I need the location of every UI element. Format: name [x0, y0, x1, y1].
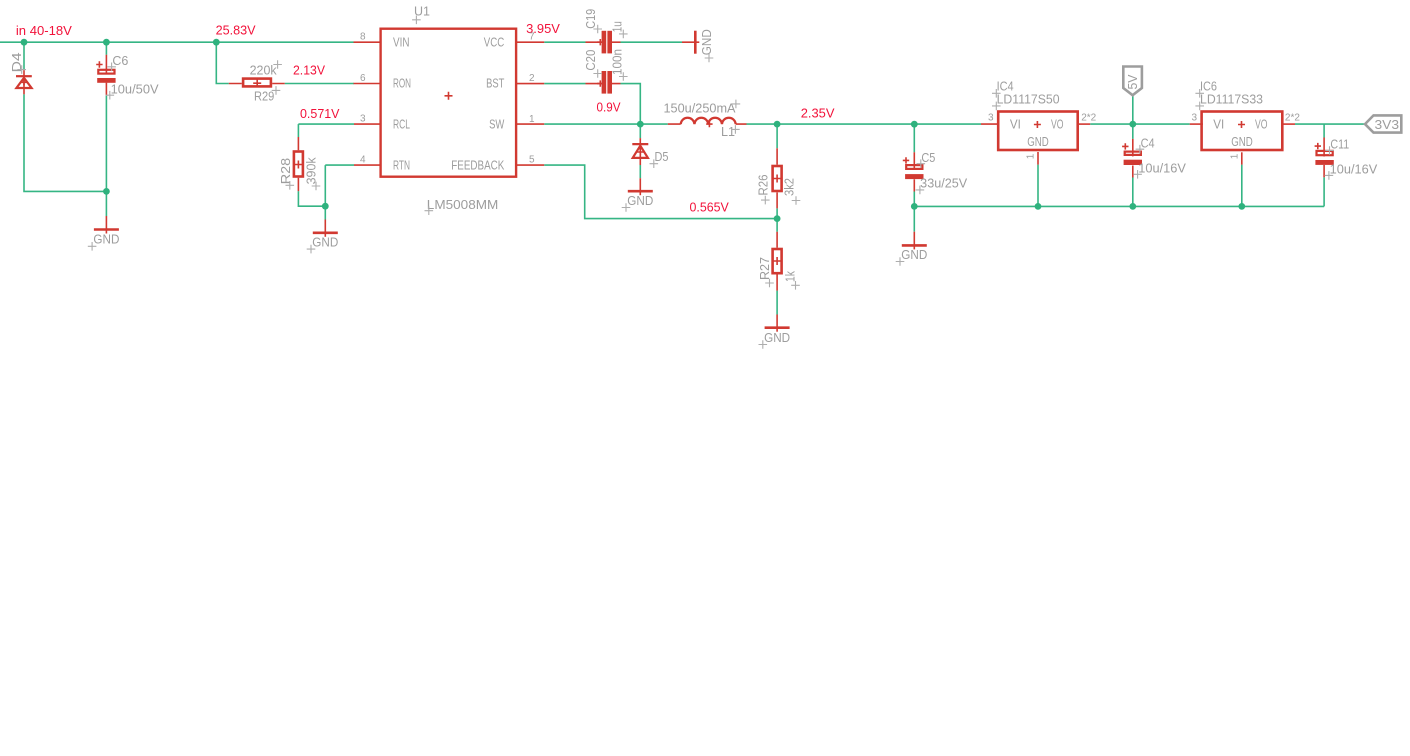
- svg-text:GND: GND: [901, 248, 927, 262]
- svg-text:GND: GND: [1231, 135, 1253, 149]
- junction IC4 gnd/rail: [1035, 203, 1042, 210]
- junction IN/D4: [21, 39, 28, 46]
- capacitor C11 bottom plate: [1315, 160, 1333, 165]
- junction L1/R26: [774, 121, 781, 128]
- capacitor C11 leads: [1323, 138, 1325, 178]
- C19 origin cross: [597, 39, 603, 45]
- resistor R27 body: [773, 249, 782, 273]
- C11 name cross: [1325, 146, 1334, 155]
- junction 5V/C4: [1129, 121, 1136, 128]
- ground GND near C19 stub: [682, 41, 699, 43]
- svg-text:VO: VO: [1051, 118, 1064, 132]
- C20 text cross: [593, 69, 602, 78]
- wire VCC to C19: [544, 41, 585, 43]
- svg-text:25.83V: 25.83V: [216, 22, 256, 37]
- svg-text:FEEDBACK: FEEDBACK: [451, 159, 505, 173]
- svg-text:C19: C19: [584, 9, 598, 29]
- R29 text cross: [272, 86, 281, 95]
- ground GND under D5 bar: [628, 190, 653, 193]
- svg-text:1k: 1k: [784, 270, 798, 282]
- svg-text:VCC: VCC: [484, 35, 505, 49]
- diode D5 lead: [639, 138, 641, 165]
- svg-text:1: 1: [1229, 153, 1240, 159]
- IC U1 body: [381, 29, 516, 177]
- wire R28 junction GND stub green: [324, 206, 326, 219]
- C5 plus mark: [903, 157, 909, 163]
- capacitor C6 bottom plate: [97, 78, 115, 83]
- 150u/250mA cross: [732, 100, 741, 109]
- wire C4 bottom green: [1132, 178, 1134, 207]
- svg-text:C11: C11: [1330, 138, 1349, 152]
- wire R27 bottom green: [776, 291, 778, 315]
- svg-text:10u/50V: 10u/50V: [111, 83, 160, 97]
- inductor L1 leads: [668, 123, 747, 125]
- svg-text:SW: SW: [489, 118, 504, 132]
- wire C11 top green: [1323, 124, 1325, 137]
- C6 plus mark: [96, 61, 102, 67]
- ground GND under R28 stub: [324, 220, 326, 237]
- wire FEEDBACK net: [544, 165, 777, 219]
- IC6 text cross: [1195, 89, 1204, 98]
- op-amp U1 pin 8 stub: [354, 41, 382, 43]
- svg-text:0.565V: 0.565V: [690, 199, 730, 214]
- svg-text:GND: GND: [93, 233, 119, 247]
- wire C5 bottom green: [913, 192, 915, 207]
- svg-text:VI: VI: [1213, 118, 1224, 132]
- IC4 input stub: [981, 123, 998, 125]
- svg-text:3: 3: [360, 113, 366, 124]
- 1u cross: [619, 30, 628, 39]
- GND D5 cross: [622, 203, 631, 212]
- wire C4 top green: [1132, 124, 1134, 139]
- svg-text:R28: R28: [279, 158, 293, 185]
- U1 pin 5 stub: [516, 164, 544, 166]
- svg-text:GND: GND: [700, 29, 714, 55]
- R28 origin cross: [294, 161, 302, 169]
- ground GND under R27 stub: [776, 315, 778, 332]
- resistor R28 body: [294, 152, 303, 177]
- GND C5 cross: [896, 257, 905, 266]
- wire IC6 out to 3V3 flag: [1295, 123, 1365, 125]
- C19 text cross: [593, 25, 602, 34]
- svg-text:GND: GND: [312, 236, 338, 250]
- ground GND under C5 stub: [913, 232, 915, 250]
- IC6 origin cross: [1238, 121, 1245, 128]
- svg-text:RON: RON: [393, 77, 411, 91]
- diode D4 cathode bar: [16, 75, 32, 77]
- resistor R29 body: [243, 79, 271, 87]
- resistor R26 body: [773, 166, 782, 191]
- svg-text:1: 1: [1026, 153, 1037, 159]
- C11 plus mark: [1315, 143, 1321, 149]
- svg-text:4: 4: [360, 154, 366, 165]
- R28 text cross: [286, 181, 295, 190]
- wire 5V flag: [1132, 95, 1134, 124]
- wire D5 bottom green: [639, 165, 641, 178]
- wire RCL pin: [298, 123, 354, 125]
- IC6 input stub: [1190, 123, 1203, 125]
- 3k2 cross: [792, 196, 801, 205]
- junction D4/C6 gnd: [103, 188, 110, 195]
- svg-text:10u/16V: 10u/16V: [1330, 162, 1378, 176]
- wire R28 top green: [297, 124, 299, 137]
- C6 name cross: [107, 63, 116, 72]
- capacitor C5 top plate: [906, 165, 922, 169]
- svg-text:R26: R26: [757, 174, 771, 195]
- wire R29 to RON pin: [285, 83, 354, 85]
- R26 origin cross: [773, 175, 781, 183]
- GND C6 cross: [88, 242, 97, 251]
- wire C5 top green: [913, 124, 915, 152]
- IC4 output stub: [1078, 123, 1090, 125]
- svg-text:VO: VO: [1255, 118, 1268, 132]
- IC6 gnd stub: [1241, 152, 1243, 164]
- svg-text:R29: R29: [254, 89, 274, 103]
- inductor L1 coils: [681, 118, 736, 124]
- svg-text:3: 3: [988, 113, 994, 124]
- wire D4 top lead green: [23, 42, 25, 70]
- D5 origin cross: [637, 149, 643, 155]
- svg-text:C5: C5: [921, 151, 935, 165]
- wire D5 top green: [639, 124, 641, 138]
- wire BST to C20: [544, 83, 585, 85]
- capacitor C5 bottom plate: [905, 174, 923, 179]
- wire C6 bottom lead: [105, 96, 107, 192]
- svg-text:5V: 5V: [1126, 74, 1140, 90]
- D4 origin cross: [21, 79, 27, 85]
- svg-text:C6: C6: [112, 54, 128, 68]
- wire branch to R29: [216, 42, 229, 83]
- U1 text cross: [412, 16, 421, 25]
- svg-text:C20: C20: [584, 50, 598, 71]
- junction IN/R29 branch: [213, 39, 220, 46]
- resistor R29 leads: [229, 83, 285, 85]
- svg-text:C4: C4: [1141, 136, 1155, 150]
- svg-text:3k2: 3k2: [782, 178, 796, 196]
- capacitor C19 plates: [602, 31, 607, 54]
- diode D4 lead: [23, 70, 25, 94]
- IC4 origin cross: [1034, 121, 1041, 128]
- 100n cross: [619, 72, 628, 81]
- wire IC6 gnd pin green: [1241, 165, 1243, 207]
- junction IC6 gnd/rail: [1238, 203, 1245, 210]
- R27 origin cross: [773, 257, 781, 265]
- U1 pin 6 stub: [354, 83, 382, 85]
- GND R28 cross: [307, 245, 316, 254]
- svg-text:in 40-18V: in 40-18V: [16, 23, 72, 38]
- wire GND rail: [914, 205, 1324, 207]
- ground GND near C19 bar: [694, 31, 697, 54]
- U1 pin 4 stub: [354, 164, 381, 166]
- svg-text:100n: 100n: [611, 49, 625, 75]
- svg-text:2*2: 2*2: [1081, 113, 1096, 124]
- ground GND under C5 bar: [902, 244, 927, 247]
- capacitor C6 top plate: [98, 70, 114, 74]
- U1 pin 1 stub: [516, 123, 544, 125]
- ground GND under R27 bar: [765, 326, 790, 329]
- R29 origin cross: [253, 79, 261, 87]
- wire IC4 out to IC6 in: [1090, 123, 1190, 125]
- svg-text:RTN: RTN: [393, 159, 410, 173]
- svg-text:GND: GND: [1027, 135, 1049, 149]
- junction node 2.35V/C5: [911, 121, 918, 128]
- svg-text:1u: 1u: [611, 21, 625, 32]
- svg-text:LD1117S33: LD1117S33: [1200, 92, 1263, 106]
- ground GND under C6 bar: [94, 228, 119, 231]
- C5 value cross: [916, 186, 925, 195]
- capacitor C4 leads: [1132, 139, 1134, 178]
- D5 text cross: [650, 159, 659, 168]
- svg-text:2.35V: 2.35V: [801, 106, 835, 121]
- U1 pin 3 stub: [354, 123, 381, 125]
- svg-text:2: 2: [529, 73, 535, 84]
- svg-text:BST: BST: [486, 77, 504, 91]
- capacitor C4 top plate: [1125, 152, 1141, 155]
- wire R28 bottom to junction: [298, 191, 325, 206]
- svg-text:33u/25V: 33u/25V: [920, 176, 968, 190]
- GND R27 cross: [759, 340, 768, 349]
- capacitor C20 leads: [586, 83, 621, 85]
- wire C11 bottom green: [1323, 177, 1325, 206]
- R27 text cross: [765, 279, 774, 288]
- svg-text:2.13V: 2.13V: [293, 63, 325, 78]
- svg-text:1: 1: [529, 114, 535, 125]
- GND C19 cross: [705, 54, 714, 63]
- junction FEEDBACK/R26/R27: [774, 215, 781, 222]
- svg-text:0.571V: 0.571V: [300, 106, 340, 121]
- C6 value cross: [106, 91, 115, 100]
- C4 plus mark: [1122, 143, 1128, 149]
- L1 text cross: [731, 125, 740, 134]
- svg-text:R27: R27: [758, 257, 772, 280]
- capacitor C6 leads: [105, 55, 107, 96]
- capacitor C20 plates: [602, 71, 607, 94]
- resistor R28 leads: [297, 137, 299, 191]
- wire D4 bottom to GND junction: [24, 94, 106, 191]
- C4 value cross: [1133, 170, 1142, 179]
- svg-text:LM5008MM: LM5008MM: [427, 198, 499, 212]
- svg-text:6: 6: [360, 73, 366, 84]
- ground GND under R28 bar: [313, 232, 338, 235]
- svg-text:220k: 220k: [250, 64, 278, 78]
- svg-text:150u/250mA: 150u/250mA: [664, 101, 737, 115]
- C11 value cross: [1325, 171, 1334, 180]
- IC IC6 body: [1202, 112, 1283, 151]
- diode D5 triangle: [633, 146, 648, 158]
- junction R28/RTN gnd: [322, 203, 329, 210]
- C5 name cross: [917, 159, 926, 168]
- svg-text:3: 3: [1191, 113, 1197, 124]
- svg-text:GND: GND: [764, 331, 790, 345]
- LM5008MM text cross: [425, 206, 434, 215]
- svg-text:7: 7: [529, 32, 535, 43]
- wire C6 top lead: [105, 42, 107, 55]
- C20 origin cross: [597, 80, 603, 86]
- IC4 gnd stub: [1037, 152, 1039, 165]
- svg-text:GND: GND: [627, 194, 653, 208]
- capacitor C11 top plate: [1317, 151, 1333, 155]
- 390k cross: [312, 182, 321, 191]
- supply flag 3V3: [1365, 115, 1401, 132]
- ground GND under D5 stub: [639, 178, 641, 195]
- svg-text:D5: D5: [655, 150, 669, 164]
- wire net IN top rail: [0, 41, 354, 43]
- wire C5 GND stub green: [913, 206, 915, 231]
- svg-text:3V3: 3V3: [1375, 118, 1400, 132]
- capacitor C4 bottom plate: [1124, 160, 1142, 165]
- 220k cross: [273, 60, 282, 69]
- 1k cross: [791, 281, 800, 290]
- wire C19 to GND: [621, 41, 683, 43]
- resistor R27 leads: [776, 232, 778, 291]
- svg-text:10u/16V: 10u/16V: [1138, 161, 1186, 175]
- svg-text:RCL: RCL: [393, 118, 410, 132]
- resistor R26 leads: [776, 148, 778, 208]
- D4 text cross: [17, 65, 26, 74]
- wire SW to L1: [544, 123, 668, 125]
- svg-text:VI: VI: [1010, 118, 1021, 132]
- C4 name cross: [1136, 145, 1145, 154]
- ground GND under C6 stub: [105, 216, 107, 234]
- supply flag 5V: [1123, 67, 1142, 96]
- svg-text:LD1117S50: LD1117S50: [997, 92, 1060, 106]
- R26 text cross: [761, 196, 770, 205]
- wire C6 GND stub green: [105, 191, 107, 216]
- IC6 output stub: [1282, 123, 1295, 125]
- diode D5 cathode bar: [632, 143, 648, 145]
- wire IC4 gnd pin green: [1037, 165, 1039, 207]
- junction C5/rail: [911, 203, 918, 210]
- IC4 text cross: [992, 89, 1001, 98]
- svg-text:8: 8: [360, 32, 366, 43]
- svg-text:5: 5: [529, 155, 535, 166]
- capacitor C19 leads: [586, 41, 621, 43]
- wire R26 bottom junction R27 top: [776, 208, 778, 231]
- junction SW/D5: [637, 121, 644, 128]
- U1 pin 2 stub: [516, 83, 544, 85]
- svg-text:0.9V: 0.9V: [597, 100, 621, 115]
- LD1117S50 cross: [992, 102, 1001, 111]
- wire C20 to SW node: [621, 84, 641, 125]
- IC IC4 body: [998, 112, 1077, 151]
- svg-text:L1: L1: [721, 125, 735, 139]
- LD1117S33 cross: [1195, 102, 1204, 111]
- junction IN/C6: [103, 39, 110, 46]
- L1 origin cross: [706, 121, 712, 127]
- capacitor C5 leads: [913, 152, 915, 191]
- svg-text:VIN: VIN: [393, 35, 410, 49]
- wire L1 to IC4 input: [747, 123, 982, 125]
- wire R26 top green: [776, 124, 778, 148]
- U1 origin cross: [445, 92, 453, 100]
- U1 pin 7 stub: [516, 41, 544, 43]
- junction C4/rail: [1129, 203, 1136, 210]
- wire RTN pin: [325, 165, 354, 206]
- diode D4 triangle: [16, 78, 31, 88]
- svg-text:2*2: 2*2: [1285, 113, 1300, 124]
- svg-text:390k: 390k: [304, 157, 318, 185]
